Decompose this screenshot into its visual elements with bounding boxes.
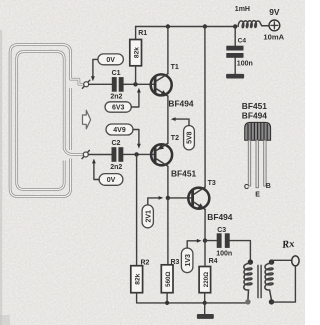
svg-text:220Ω: 220Ω xyxy=(203,272,210,287)
label 6V3 oval xyxy=(105,102,131,112)
wire T3 emitter down xyxy=(204,209,206,240)
wire earphone return xyxy=(272,266,296,302)
svg-text:9V: 9V xyxy=(269,7,280,17)
resistor R4 xyxy=(199,267,211,293)
wire R3 bottom xyxy=(166,293,168,303)
wire R1 top xyxy=(135,27,137,40)
svg-text:R4: R4 xyxy=(209,258,218,265)
transistor T1 xyxy=(151,74,172,96)
svg-text:BF494: BF494 xyxy=(207,212,232,222)
earphone RX xyxy=(292,256,299,266)
node C junction xyxy=(166,196,170,200)
resistor R1 xyxy=(130,40,142,66)
leader 1V3 xyxy=(187,241,197,248)
svg-text:560Ω: 560Ω xyxy=(165,272,172,287)
wire tap to C1 xyxy=(89,83,112,85)
loop antenna L1 inner turn with bottom tap exit xyxy=(17,52,84,190)
ground bar top right xyxy=(226,74,244,79)
svg-text:4V9: 4V9 xyxy=(113,127,126,134)
svg-text:BF451: BF451 xyxy=(171,169,196,179)
svg-text:R2: R2 xyxy=(141,259,150,266)
svg-text:0V: 0V xyxy=(107,177,116,184)
svg-text:2n2: 2n2 xyxy=(110,164,122,171)
wire node C down to R3 xyxy=(167,198,169,265)
svg-text:100n: 100n xyxy=(237,60,253,67)
svg-text:BF494: BF494 xyxy=(168,98,193,108)
block arrow xyxy=(83,110,91,129)
wire C1 to T1 base xyxy=(124,83,154,85)
wire R1 bottom to node A xyxy=(135,66,137,85)
wire node D down to R4 xyxy=(204,241,206,267)
wire C3 to transformer xyxy=(230,241,251,261)
transformer primary terminal bottom xyxy=(245,299,250,304)
svg-text:R1: R1 xyxy=(138,30,147,37)
transformer secondary terminal top xyxy=(269,259,274,264)
node D junction xyxy=(203,238,207,242)
battery 9V xyxy=(269,20,280,31)
svg-text:T1: T1 xyxy=(171,64,179,71)
wire secondary to earphone xyxy=(272,260,292,262)
wire tap to C2 xyxy=(88,154,111,156)
svg-text:6V3: 6V3 xyxy=(112,105,125,112)
transformer secondary coil xyxy=(265,263,273,300)
leader 2V1 xyxy=(148,198,159,205)
wire T1 emitter to T2 emitter xyxy=(167,96,169,143)
ground stub xyxy=(204,303,206,314)
wire T2 collector down xyxy=(167,166,169,198)
scan smudge left edge xyxy=(0,30,2,325)
svg-text:R3: R3 xyxy=(171,259,180,266)
svg-text:T3: T3 xyxy=(208,180,216,187)
transformer primary terminal top xyxy=(248,259,253,264)
node B junction xyxy=(134,152,138,156)
svg-text:5V8: 5V8 xyxy=(187,131,194,144)
wire R4 bottom xyxy=(204,293,206,303)
wire node B down to R2 xyxy=(136,154,138,265)
wire C2 to T2 base xyxy=(123,153,153,155)
wire node C to T3 base xyxy=(168,197,191,199)
node rail C4 xyxy=(233,24,237,28)
svg-text:Rx: Rx xyxy=(281,239,296,252)
transformer core xyxy=(258,265,261,297)
wire T1 collector up xyxy=(167,27,169,74)
svg-text:100n: 100n xyxy=(216,250,232,257)
leader 4V9 xyxy=(133,130,139,145)
svg-text:82k: 82k xyxy=(134,47,141,58)
capacitor C1 xyxy=(112,77,117,92)
svg-text:10mA: 10mA xyxy=(263,33,284,42)
antenna tap connector bottom xyxy=(82,150,89,158)
node R4 rail xyxy=(203,301,207,305)
svg-text:B: B xyxy=(266,183,271,190)
wire node D to C3 xyxy=(205,240,217,242)
svg-text:T2: T2 xyxy=(171,135,179,142)
resistor R3 xyxy=(161,265,173,293)
svg-text:C4: C4 xyxy=(238,38,247,45)
leader 5V8 xyxy=(175,119,189,125)
antenna tap connector top xyxy=(82,80,89,88)
leader 6V3 xyxy=(131,92,139,107)
svg-text:E: E xyxy=(255,192,260,199)
TO-92 package body xyxy=(245,122,271,140)
node A junction xyxy=(133,82,137,86)
leader 0V top xyxy=(93,59,98,76)
transistor T2 xyxy=(151,143,172,166)
capacitor C2 xyxy=(112,147,117,162)
inductor 1mH coil xyxy=(238,21,268,28)
capacitor C3 xyxy=(217,233,222,248)
transformer primary coil xyxy=(244,263,252,300)
label 0V bottom oval xyxy=(99,174,123,186)
label 1V3 oval xyxy=(181,248,193,273)
transistor T3 xyxy=(188,187,209,209)
label 4V9 oval xyxy=(106,124,133,135)
wire C4 from rail xyxy=(234,27,236,46)
node R3 rail xyxy=(165,301,169,305)
svg-text:0V: 0V xyxy=(106,57,115,64)
svg-text:C1: C1 xyxy=(112,70,121,77)
leader 0V bottom xyxy=(94,163,99,179)
svg-text:2V1: 2V1 xyxy=(145,210,152,223)
svg-text:BF494: BF494 xyxy=(242,111,267,121)
capacitor C4 xyxy=(226,46,243,51)
loop antenna L1 outer turn xyxy=(10,45,84,197)
svg-text:1mH: 1mH xyxy=(235,6,250,13)
resistor R2 xyxy=(131,266,143,293)
svg-text:1V3: 1V3 xyxy=(185,254,192,267)
ground bar bottom xyxy=(197,314,214,319)
svg-text:82k: 82k xyxy=(135,273,142,284)
node rail T1 xyxy=(166,24,170,28)
label 5V8 oval xyxy=(184,126,195,150)
transformer secondary terminal bottom xyxy=(269,299,274,304)
wire T3 collector up to rail xyxy=(204,27,206,188)
wire top rail xyxy=(136,26,236,28)
label 0V top oval xyxy=(98,54,124,65)
wire C4 to ground xyxy=(234,58,236,74)
node rail T3 xyxy=(203,24,207,28)
svg-text:2n2: 2n2 xyxy=(110,94,122,101)
svg-text:C3: C3 xyxy=(217,227,226,234)
wire R2 bottom to ground rail xyxy=(137,293,248,303)
svg-text:C: C xyxy=(244,184,249,191)
svg-text:BF451: BF451 xyxy=(242,101,267,111)
svg-text:C2: C2 xyxy=(112,140,121,147)
label 2V1 oval xyxy=(142,205,153,228)
TO-92 legs xyxy=(248,140,266,188)
